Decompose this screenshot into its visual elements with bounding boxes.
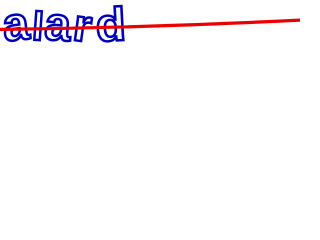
strikethrough line xyxy=(0,20,300,29)
svg-text:a: a xyxy=(43,0,74,50)
svg-text:d: d xyxy=(94,0,127,50)
background xyxy=(0,0,300,50)
